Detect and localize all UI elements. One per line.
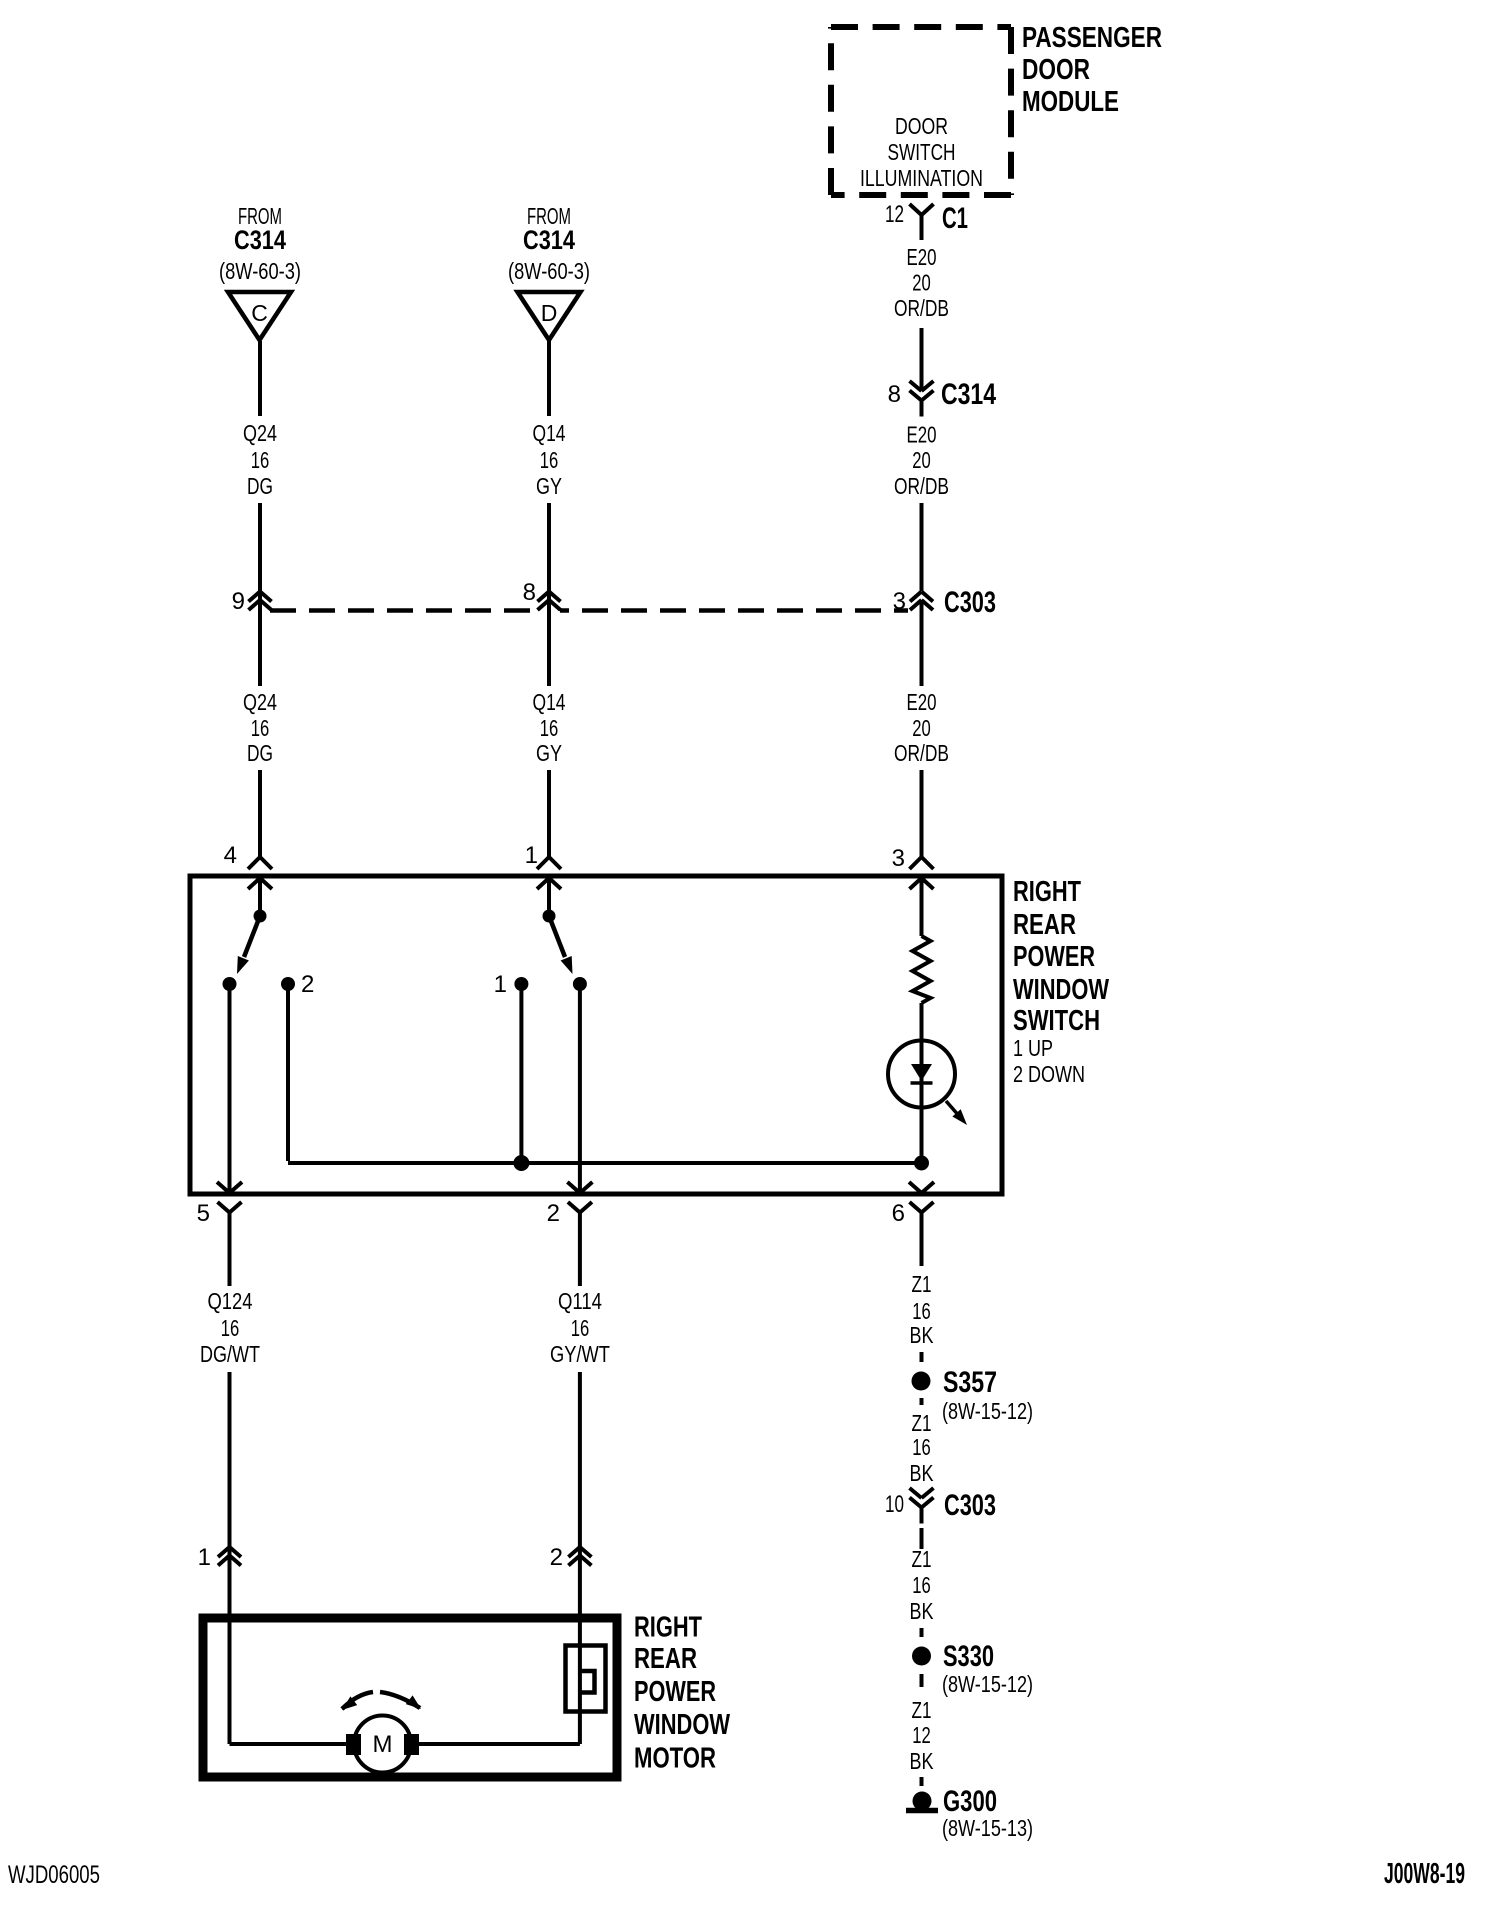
- svg-text:Q124: Q124: [208, 1288, 253, 1314]
- svg-text:C314: C314: [941, 378, 996, 411]
- svg-text:2: 2: [547, 1200, 560, 1227]
- wire: [547, 503, 551, 686]
- svg-text:1: 1: [525, 842, 538, 869]
- svg-text:6: 6: [892, 1200, 905, 1227]
- svg-text:Q24: Q24: [243, 689, 277, 715]
- svg-text:ILLUMINATION: ILLUMINATION: [860, 165, 983, 191]
- svg-text:Q24: Q24: [243, 420, 277, 446]
- svg-text:M: M: [373, 1731, 393, 1758]
- wire: [920, 1777, 924, 1786]
- wire: [920, 600, 924, 686]
- motor terminal left: [346, 1734, 361, 1755]
- svg-text:9: 9: [232, 588, 245, 615]
- switch pin 2 connector: [567, 1182, 580, 1193]
- svg-text:DOOR: DOOR: [895, 113, 948, 139]
- svg-text:C314: C314: [523, 225, 575, 255]
- svg-text:16: 16: [540, 715, 559, 741]
- wire: [578, 984, 582, 1191]
- off-page connector triangle C: [228, 292, 291, 340]
- svg-text:D: D: [541, 300, 558, 326]
- switch pin 5 connector: [217, 1182, 230, 1193]
- svg-text:(8W-15-13): (8W-15-13): [942, 1815, 1033, 1841]
- svg-text:(8W-60-3): (8W-60-3): [508, 258, 590, 284]
- svg-text:WINDOW: WINDOW: [634, 1709, 730, 1741]
- connector C303 dashed line: [270, 608, 908, 613]
- svg-text:DOOR: DOOR: [1022, 54, 1090, 86]
- connector C303 pin 10: [910, 1488, 922, 1498]
- wire: [521, 1161, 921, 1165]
- switch contact node: [573, 977, 587, 991]
- svg-text:16: 16: [221, 1315, 240, 1341]
- ground G300: [913, 1792, 932, 1811]
- junction: [914, 1156, 929, 1171]
- wire: [419, 1742, 580, 1746]
- switch pin 4 connector: [258, 845, 262, 857]
- svg-text:2: 2: [550, 1544, 563, 1571]
- svg-text:BK: BK: [910, 1322, 935, 1348]
- svg-text:(8W-60-3): (8W-60-3): [219, 258, 301, 284]
- LED diode triangle: [911, 1064, 932, 1081]
- svg-text:RIGHT: RIGHT: [1013, 876, 1081, 908]
- wire: [920, 1003, 924, 1163]
- svg-text:E20: E20: [907, 689, 937, 715]
- off-page connector triangle D: [518, 292, 581, 340]
- svg-text:Z1: Z1: [912, 1410, 932, 1436]
- svg-text:16: 16: [540, 447, 559, 473]
- wire: [920, 503, 924, 591]
- svg-text:2 DOWN: 2 DOWN: [1013, 1061, 1085, 1087]
- svg-text:POWER: POWER: [634, 1676, 716, 1708]
- svg-text:J00W8-19: J00W8-19: [1384, 1858, 1465, 1890]
- svg-text:4: 4: [224, 842, 237, 869]
- svg-text:12: 12: [912, 1722, 931, 1748]
- svg-text:1 UP: 1 UP: [1013, 1035, 1053, 1061]
- svg-text:E20: E20: [907, 244, 937, 270]
- svg-text:Z1: Z1: [912, 1697, 932, 1723]
- switch lever with arrow: [244, 916, 260, 957]
- connector C303 pin 3: [910, 592, 922, 602]
- svg-text:MOTOR: MOTOR: [634, 1743, 716, 1775]
- svg-text:GY: GY: [536, 473, 562, 499]
- switch contact node 2: [281, 977, 295, 991]
- svg-text:MODULE: MODULE: [1022, 86, 1119, 118]
- wire: [920, 1352, 924, 1362]
- svg-text:BK: BK: [910, 1598, 935, 1624]
- switch lever with arrow: [549, 916, 565, 957]
- motor pin 2 connector: [568, 1547, 580, 1557]
- svg-text:C303: C303: [944, 1489, 996, 1522]
- svg-text:1: 1: [198, 1544, 211, 1571]
- wire: [547, 341, 551, 416]
- svg-text:GY: GY: [536, 740, 562, 766]
- wire: [228, 984, 232, 1191]
- wire: [920, 1398, 924, 1405]
- svg-text:REAR: REAR: [634, 1643, 697, 1675]
- svg-text:8: 8: [523, 579, 536, 606]
- switch pin 1 connector: [547, 845, 551, 857]
- svg-text:DG: DG: [247, 473, 273, 499]
- svg-text:(8W-15-12): (8W-15-12): [942, 1671, 1033, 1697]
- svg-text:10: 10: [885, 1491, 904, 1518]
- right rear power window switch box: [190, 876, 1002, 1194]
- wire: [258, 341, 262, 416]
- splice S330: [912, 1647, 931, 1666]
- svg-text:12: 12: [885, 201, 904, 228]
- wire: [258, 770, 262, 845]
- svg-text:3: 3: [892, 845, 905, 872]
- svg-text:RIGHT: RIGHT: [634, 1612, 702, 1644]
- svg-text:DG/WT: DG/WT: [200, 1341, 260, 1367]
- svg-text:C1: C1: [942, 202, 968, 235]
- svg-text:5: 5: [197, 1200, 210, 1227]
- svg-text:Q114: Q114: [558, 1288, 602, 1314]
- LED circle: [888, 1041, 955, 1108]
- splice S357: [912, 1372, 931, 1391]
- wire: [920, 770, 924, 845]
- svg-text:REAR: REAR: [1013, 909, 1076, 941]
- svg-text:20: 20: [912, 270, 931, 296]
- svg-text:SWITCH: SWITCH: [1013, 1005, 1100, 1037]
- wire: [258, 503, 262, 686]
- svg-text:16: 16: [912, 1434, 931, 1460]
- svg-text:3: 3: [893, 588, 906, 615]
- wire: [230, 1742, 347, 1746]
- svg-text:POWER: POWER: [1013, 941, 1095, 973]
- svg-text:PASSENGER: PASSENGER: [1022, 22, 1162, 54]
- svg-text:DG: DG: [247, 740, 273, 766]
- svg-text:OR/DB: OR/DB: [894, 740, 949, 766]
- resistor: [913, 936, 931, 1003]
- svg-text:20: 20: [912, 715, 931, 741]
- svg-text:16: 16: [251, 715, 270, 741]
- svg-text:WJD06005: WJD06005: [8, 1861, 100, 1889]
- switch contact node: [223, 977, 237, 991]
- motor connector symbol: [566, 1646, 606, 1712]
- svg-text:Q14: Q14: [533, 689, 566, 715]
- svg-text:SWITCH: SWITCH: [888, 139, 956, 165]
- svg-text:S357: S357: [943, 1366, 997, 1399]
- svg-text:16: 16: [251, 447, 270, 473]
- svg-text:S330: S330: [943, 1640, 994, 1673]
- switch pole node pin 4: [254, 910, 267, 923]
- wire: [547, 770, 551, 845]
- switch pin 3 connector: [920, 845, 924, 857]
- LED emission arrow: [946, 1101, 960, 1117]
- svg-text:Z1: Z1: [912, 1271, 932, 1297]
- connector C1 pin 12: [910, 204, 922, 215]
- svg-text:2: 2: [301, 971, 314, 998]
- svg-text:(8W-15-12): (8W-15-12): [942, 1398, 1033, 1424]
- switch pole node pin 1: [543, 910, 556, 923]
- junction: [513, 1155, 529, 1171]
- rotation arrow: [342, 1692, 373, 1709]
- svg-text:Z1: Z1: [912, 1546, 932, 1572]
- connector C303 pin 8: [538, 604, 560, 615]
- svg-text:C303: C303: [944, 586, 996, 619]
- svg-text:OR/DB: OR/DB: [894, 295, 949, 321]
- wire: [920, 1674, 924, 1687]
- right rear power window motor box: [203, 1618, 617, 1777]
- motor pin 1 connector: [218, 1547, 230, 1557]
- connector C314 pin 8: [910, 381, 922, 391]
- svg-text:8: 8: [888, 381, 901, 408]
- svg-text:16: 16: [912, 1298, 931, 1324]
- svg-text:Q14: Q14: [533, 420, 566, 446]
- svg-text:G300: G300: [943, 1785, 997, 1818]
- svg-text:OR/DB: OR/DB: [894, 473, 949, 499]
- svg-text:20: 20: [912, 447, 931, 473]
- switch pin 6 connector: [909, 1182, 922, 1193]
- svg-text:BK: BK: [910, 1460, 935, 1486]
- svg-text:GY/WT: GY/WT: [550, 1341, 610, 1367]
- connector C303 pin 9: [249, 592, 261, 602]
- motor terminal right: [404, 1734, 419, 1755]
- switch contact node 1: [514, 977, 528, 991]
- wire: [578, 1372, 582, 1744]
- passenger door module dashed box: [831, 27, 1011, 195]
- svg-text:WINDOW: WINDOW: [1013, 974, 1109, 1006]
- svg-text:C314: C314: [234, 225, 286, 255]
- svg-text:BK: BK: [910, 1748, 935, 1774]
- svg-text:16: 16: [571, 1315, 590, 1341]
- motor M1: [354, 1716, 411, 1773]
- svg-text:C: C: [251, 300, 268, 326]
- svg-text:16: 16: [912, 1572, 931, 1598]
- wire: [286, 984, 290, 1161]
- svg-text:1: 1: [494, 971, 507, 998]
- wire: [920, 1528, 924, 1549]
- svg-text:E20: E20: [907, 422, 937, 448]
- wire: [228, 1372, 232, 1744]
- wire: [920, 1628, 924, 1637]
- wire: [920, 328, 924, 391]
- wire: [519, 984, 523, 1163]
